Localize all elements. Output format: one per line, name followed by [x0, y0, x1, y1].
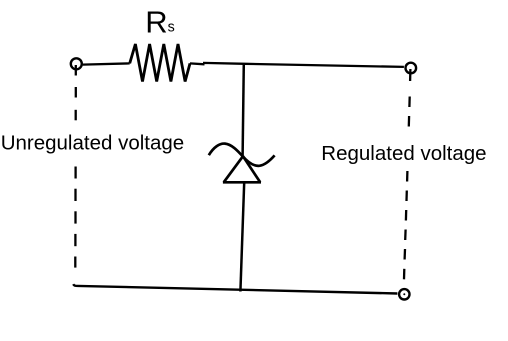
- svg-text:Regulated voltage: Regulated voltage: [321, 142, 486, 165]
- wire resistor to node A: [190, 63, 245, 64]
- resistor R1: [130, 44, 190, 82]
- wire zener anode to bottom wire: [240, 183, 244, 292]
- terminal top-left: [71, 58, 82, 69]
- terminal top-right: [406, 63, 417, 74]
- wire node A to top-right terminal: [245, 64, 404, 67]
- wire node A to zener cathode: [243, 63, 244, 156]
- svg-text:s: s: [168, 20, 175, 36]
- wire top-left terminal to resistor: [83, 63, 130, 64]
- dashed wire left (unregulated port): [74, 65, 77, 268]
- terminal bottom-right: [399, 289, 409, 299]
- svg-text:R: R: [145, 4, 167, 39]
- svg-text:Unregulated voltage: Unregulated voltage: [1, 132, 185, 155]
- zener diode D1: [209, 144, 275, 183]
- bottom wire: [73, 284, 397, 293]
- dashed wire right (regulated port): [404, 69, 410, 279]
